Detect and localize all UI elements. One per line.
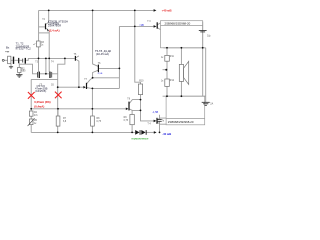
- svg-text:0,75: 0,75: [124, 120, 129, 122]
- svg-text:R11: R11: [170, 56, 175, 58]
- svg-text:2SB968/2SD968-20: 2SB968/2SD968-20: [168, 120, 194, 124]
- svg-text:R12: R12: [170, 80, 175, 82]
- svg-text:-1,5В: -1,5В: [152, 111, 158, 114]
- svg-text:-40 мВ: -40 мВ: [162, 132, 171, 136]
- svg-text:2SB968/2SD968-20: 2SB968/2SD968-20: [165, 22, 191, 26]
- svg-text:≈1В: ≈1В: [139, 23, 144, 27]
- svg-text:2А: 2А: [210, 102, 213, 105]
- svg-text:(0,4мА): (0,4мА): [34, 104, 44, 108]
- svg-text:(16/25 В): (16/25 В): [35, 89, 46, 93]
- svg-text:2SA479GR: 2SA479GR: [48, 24, 61, 28]
- svg-text:германиевые: германиевые: [131, 136, 149, 140]
- svg-text:(40-45 мА): (40-45 мА): [96, 52, 109, 56]
- svg-text:0,5В: 0,5В: [98, 73, 103, 75]
- svg-text:+40 мВ: +40 мВ: [162, 8, 172, 12]
- svg-text:КТ3107-ТС2: КТ3107-ТС2: [16, 47, 32, 51]
- svg-text:Сф: Сф: [207, 34, 211, 37]
- svg-text:R10: R10: [139, 81, 144, 83]
- svg-text:(2,4 мА): (2,4 мА): [49, 28, 60, 32]
- svg-text:0,75: 0,75: [97, 121, 102, 123]
